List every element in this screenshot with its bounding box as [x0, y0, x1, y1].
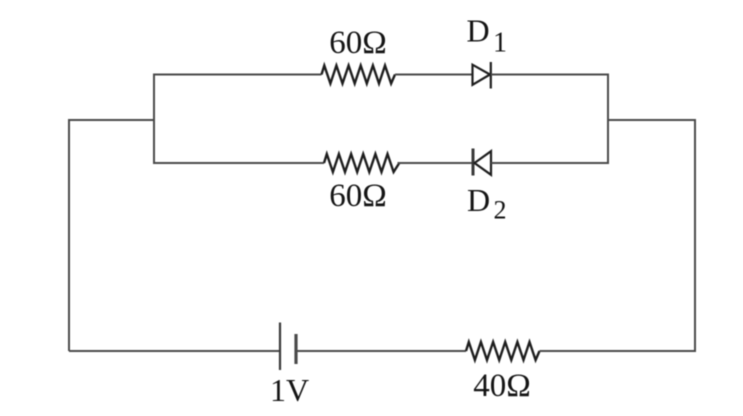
wire: middle branch right segment — [491, 162, 608, 164]
wire: bottom right segment — [540, 350, 697, 352]
wire: right parallel vertical — [607, 74, 609, 165]
wire: top branch right segment — [491, 74, 608, 76]
svg-text:60Ω: 60Ω — [329, 25, 387, 61]
diode D2 (cathode left, pointing left) — [473, 149, 491, 176]
wire: middle branch left segment — [153, 162, 324, 164]
wire: right outer vertical — [694, 120, 696, 351]
wire: top branch left segment — [153, 74, 322, 76]
wire: left connector horizontal — [68, 119, 154, 121]
svg-text:2: 2 — [494, 195, 507, 224]
wire: left parallel vertical — [153, 74, 155, 165]
svg-text:1: 1 — [493, 27, 507, 58]
wire: bottom left segment — [69, 350, 280, 352]
svg-text:1V: 1V — [270, 372, 309, 408]
svg-text:D: D — [467, 182, 490, 218]
resistor R2 60ohm (middle) — [324, 154, 399, 172]
diode D1 (anode left, pointing right) — [473, 62, 491, 89]
wire: left outer vertical — [68, 120, 70, 351]
resistor R3 40ohm (bottom) — [466, 342, 540, 360]
wire: bottom middle segment — [296, 350, 466, 352]
svg-text:60Ω: 60Ω — [329, 178, 387, 214]
wire: middle branch center segment — [398, 162, 474, 164]
battery V1 long plate (left) — [279, 323, 281, 371]
wire: top branch middle segment — [395, 74, 472, 76]
wire: right connector horizontal — [608, 119, 696, 121]
svg-text:40Ω: 40Ω — [473, 368, 531, 404]
resistor R1 60ohm (top) — [322, 66, 396, 84]
svg-text:D: D — [467, 12, 490, 48]
battery V1 short plate (right) — [294, 334, 297, 364]
